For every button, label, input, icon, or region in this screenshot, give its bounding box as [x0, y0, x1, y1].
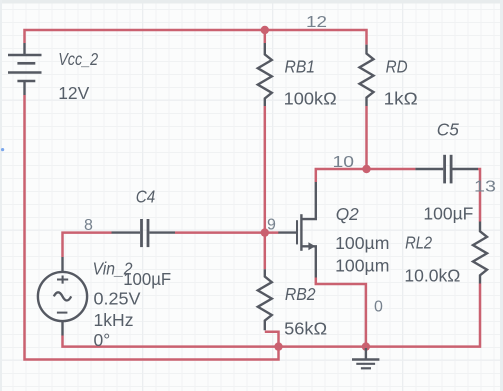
stray blue marker on left edge — [1, 148, 4, 151]
junction node 0 left — [274, 342, 282, 350]
junction node 10 — [362, 165, 370, 173]
junction node 9 — [261, 228, 269, 236]
transistor Q2 NMOS — [278, 182, 316, 278]
svg-text:0: 0 — [374, 299, 383, 316]
capacitor C5 — [415, 155, 478, 184]
wire Q2 source to ground rail — [316, 278, 366, 347]
svg-text:0°: 0° — [94, 330, 111, 350]
wire RD bottom to node 10 — [365, 106, 368, 169]
wire ground rail net 0: Vin- to RL2 bottom — [63, 284, 481, 347]
svg-text:8: 8 — [84, 217, 93, 234]
page left edge band — [0, 0, 2, 391]
svg-text:1kHz: 1kHz — [94, 310, 134, 330]
svg-text:10.0kΩ: 10.0kΩ — [404, 266, 460, 286]
svg-text:Vcc_2: Vcc_2 — [58, 49, 98, 69]
ground — [352, 348, 379, 368]
wire net 9 horizontal: C4 right plate to Q2 gate — [175, 231, 279, 234]
svg-text:RL2: RL2 — [405, 233, 432, 253]
svg-text:10: 10 — [333, 154, 355, 171]
wire net 9 vertical: RB1 bottom through node 9 to RB2 top — [264, 106, 267, 269]
wire battery- down left side and along bottom to node 0 — [25, 95, 279, 360]
resistor RB1 — [258, 43, 272, 106]
svg-text:Q2: Q2 — [336, 204, 359, 224]
svg-text:100µm: 100µm — [335, 233, 389, 253]
source Vin_2 — [38, 257, 87, 336]
resistor RD — [360, 45, 374, 106]
junction node 12 — [261, 26, 269, 34]
svg-text:C4: C4 — [136, 186, 156, 206]
svg-text:12: 12 — [306, 14, 327, 31]
wire net 12 top rail: battery+ to RB1 top to RD top — [25, 30, 367, 45]
resistor RB2 — [258, 269, 272, 330]
wire RB2 bottom jog to node 0 — [265, 332, 279, 347]
svg-text:RD: RD — [386, 56, 408, 76]
page right edge band — [500, 0, 503, 391]
transistor Q2 source arrow — [308, 242, 315, 250]
svg-text:56kΩ: 56kΩ — [284, 318, 327, 338]
svg-text:RB2: RB2 — [285, 284, 316, 304]
svg-text:13: 13 — [474, 179, 496, 196]
page top edge band — [0, 0, 503, 4]
battery Vcc_2 — [8, 43, 42, 95]
svg-text:100kΩ: 100kΩ — [284, 89, 337, 109]
svg-text:RB1: RB1 — [285, 56, 316, 76]
svg-text:9: 9 — [267, 216, 276, 233]
svg-text:Vin_2: Vin_2 — [93, 258, 133, 278]
capacitor C4 — [112, 219, 176, 247]
wire net 10: Q2 drain up, along to RD bottom junction and C5 left — [316, 169, 416, 182]
svg-text:C5: C5 — [437, 120, 459, 140]
svg-text:100µm: 100µm — [335, 256, 389, 276]
svg-text:0.25V: 0.25V — [94, 289, 141, 309]
wire net 13: C5 right down to RL2 top — [478, 169, 480, 222]
resistor RL2 — [473, 222, 487, 284]
svg-text:1kΩ: 1kΩ — [384, 89, 418, 109]
svg-text:100µF: 100µF — [423, 204, 473, 224]
wire net 8: Vin+ up and right to C4 — [63, 233, 112, 257]
wire RB1 top stub — [264, 30, 267, 43]
svg-text:12V: 12V — [58, 83, 89, 103]
junction node 0 at ground — [362, 342, 370, 350]
